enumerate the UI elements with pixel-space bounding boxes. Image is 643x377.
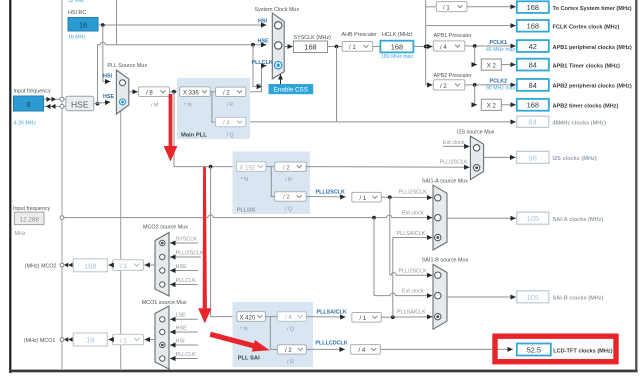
svg-text:X 336: X 336 [183,90,199,96]
MCO1 radio HSE [160,329,165,334]
AHB prescaler dropdown /1 [342,42,373,52]
node HSE junction [96,102,100,106]
MCO2 double arrow left [64,263,73,268]
svg-text:/ 1: / 1 [360,196,367,202]
svg-text:* N: * N [241,177,249,183]
wire FCLK [426,25,516,27]
svg-text:MHz: MHz [15,231,26,237]
PLL source mux body [116,70,128,114]
PLLI2S /Q dropdown [275,192,307,201]
frame right border [635,0,637,372]
pin node I2S CKIN [60,216,64,220]
double arrow left [46,104,56,109]
APB1 timer multiplier X2 [481,59,501,70]
MCO2 value box 168 greyed [73,259,107,272]
wire HCLK right [414,46,426,48]
wire X2 to APB2 timer [501,104,516,106]
MCO1 divider dropdown /1 greyed [113,334,144,345]
svg-text:180 MHz max: 180 MHz max [381,54,413,60]
left pin rail wire [61,0,63,369]
svg-text:Main PLL: Main PLL [181,132,207,138]
wire input to HSE pin upper [44,98,61,100]
wire N to P [210,91,215,93]
SAI1-B radio PLLSAICLK selected [435,313,441,319]
wire SAI N elbow to R [270,317,277,350]
node HCLK junction [424,45,428,49]
svg-text:APB1 peripheral clocks (MHz): APB1 peripheral clocks (MHz) [553,45,632,51]
svg-text:SAI1-A source Mux: SAI1-A source Mux [422,179,468,185]
svg-text:APB1 Prescaler: APB1 Prescaler [434,33,472,39]
svg-text:(MHz) MCO2: (MHz) MCO2 [25,264,57,270]
wire PLL mux out [129,91,138,93]
svg-text:168: 168 [527,101,539,110]
wire APB2 out [465,84,516,86]
svg-text:HSE: HSE [103,94,114,100]
svg-text:System Clock Mux: System Clock Mux [255,7,300,13]
svg-text:MCO1 source Mux: MCO1 source Mux [142,300,187,306]
svg-text:MCO2 source Mux: MCO2 source Mux [143,225,188,231]
wire I2S N to R [266,166,275,168]
LSE stub wire MCO1 [170,318,198,320]
MCO1 radio HSI selected [160,342,165,347]
svg-text:PCLK1: PCLK1 [490,40,508,46]
svg-text:/ 2: / 2 [283,165,290,171]
svg-text:/ 4: / 4 [285,315,292,321]
wire divider to SAI1-A mux [381,196,432,198]
svg-text:HSE: HSE [176,325,187,331]
svg-text:SAI-A clocks (MHz): SAI-A clocks (MHz) [553,217,604,223]
Main PLL /P dropdown [216,87,246,96]
svg-text:* N: * N [184,102,192,108]
APB1 peripheral value box 42 [517,40,549,52]
I2S value box 96 greyed [517,151,550,163]
svg-text:SYSCLK: SYSCLK [176,236,198,242]
MCO1 double arrow left [64,337,73,342]
FCLK value box 168 [517,20,549,32]
wire LCD divider to output [380,348,512,350]
SAI1-A source mux body [433,185,447,250]
svg-text:PLLCLK: PLLCLK [252,60,273,66]
svg-text:/ 4: / 4 [440,45,447,51]
wire SAI1-A out [447,217,516,219]
node PLLI2SCLK junction [388,195,392,199]
aux rail wire lower [120,111,122,369]
HSE oscillator block [66,96,94,110]
svg-text:84: 84 [529,61,537,70]
HCLK distribution rail [425,0,427,85]
SAI1-B radio PLLI2SCLK [435,272,441,278]
svg-text:PCLK2: PCLK2 [490,79,508,85]
svg-text:/ R: / R [287,359,294,365]
svg-text:APB2 Prescaler: APB2 Prescaler [434,73,472,79]
svg-text:SAI-B clocks (MHz): SAI-B clocks (MHz) [553,296,604,302]
svg-text:FCLK Cortex clock (MHz): FCLK Cortex clock (MHz) [553,25,620,31]
svg-text:/ 2: / 2 [283,195,290,201]
svg-text:/ 1: / 1 [349,45,356,51]
wire SAI N to Q [265,316,277,318]
MCO2 divider dropdown /1 greyed [113,260,144,271]
APB2 timer value box 168 [517,99,549,111]
svg-text:PLLI2SCLK: PLLI2SCLK [399,268,428,274]
MCO2 source mux body [155,233,169,297]
wire N elbow to Q [212,92,216,122]
wire APB2 down to X2 [475,85,477,105]
wire PLLSAI R out to LCD divider [306,348,345,350]
frame left border [9,0,11,373]
HSI RC oscillator block 16 MHz [68,18,98,32]
wire PLLI2SCLK into SAI1-B with hop [390,273,433,276]
PLLCLK stub wire MCO2 [170,284,198,286]
PLL mux radio HSE selected [120,99,126,105]
svg-text:/ 4: / 4 [223,121,230,127]
svg-text:PLLI2SCLK: PLLI2SCLK [399,190,428,196]
svg-text:APB1 Timer clocks (MHz): APB1 Timer clocks (MHz) [553,63,620,69]
svg-text:I2S clocks (MHz): I2S clocks (MHz) [553,156,597,162]
svg-text:PLLI2SCLK: PLLI2SCLK [440,160,469,166]
svg-text:HSI: HSI [103,74,112,80]
wire APB1 out [465,45,516,47]
Main PLL multiplier xN dropdown [180,87,211,97]
svg-text:105: 105 [527,214,539,223]
wire SYSCLK down [336,47,338,122]
APB1 prescaler dropdown /4 [433,41,465,51]
wire HSI to system clock mux [98,24,267,26]
wire rail into cortex prescaler [426,6,436,8]
wire SYSCLK to AHB [328,46,343,48]
svg-text:HCLK (MHz): HCLK (MHz) [382,32,413,38]
PLLI2SCLK stub wire MCO2 [170,256,201,258]
wire HSE down to CSS [252,45,254,87]
HSI stub wire MCO1 [170,344,198,346]
svg-text:/ Q: / Q [227,132,234,138]
red arrow 3 diagonal [210,332,270,352]
svg-text:HSI: HSI [176,338,185,344]
PLLI2S panel [233,152,311,215]
MCO1 value box 16 greyed [73,333,107,346]
I2S divider dropdown /1 [352,192,382,202]
APB2 peripheral value box 84 [517,79,549,91]
svg-text:4-26 MHz: 4-26 MHz [14,121,37,127]
svg-text:Ext clock: Ext clock [402,289,424,295]
wire PLLI2S Q out to divider [306,196,345,198]
wire APB1 down to X2 [475,46,477,65]
wire SAI1-B out [447,296,516,298]
LCD divider dropdown /4 [351,345,381,355]
pin node MCO2 [60,263,64,267]
SYSCLK value box 168 [294,41,328,53]
svg-text:PLLCLK: PLLCLK [176,352,196,358]
external I2S clock rail [64,215,432,218]
wire HSI into PLL mux [103,81,111,83]
node APB1 junction [473,44,477,48]
MCO2 radio SYSCLK selected [160,240,165,245]
svg-text:Input frequency: Input frequency [13,206,50,212]
svg-text:I2S source Mux: I2S source Mux [457,130,495,136]
I2S input frequency box 12.288 [14,212,44,225]
svg-text:X 420: X 420 [240,315,256,321]
pin node upper [60,97,64,101]
MCO1 radio LSE [160,317,165,322]
wire CSS stub with hop [253,84,262,87]
node APB2 junction [473,83,477,87]
wire HSE to system clock mux with hop [98,42,267,45]
svg-text:PLLSAICLK: PLLSAICLK [397,310,426,316]
svg-text:168: 168 [391,43,403,52]
APB1 timer value box 84 [517,59,549,71]
MCO2 radio PLLI2SCLK [160,254,165,259]
wire sysmux out [284,46,293,48]
HSE stub wire MCO2 [170,270,198,272]
divider /M dropdown [139,87,170,97]
node PLLSAICLK junction [391,315,395,319]
wire I2S mux out [484,156,516,158]
SAI1-A radio PLLSAICLK selected [435,234,441,240]
wire I2S N elbow to Q [271,167,274,197]
wire pins to HSE block [64,98,66,100]
svg-text:PLLCLK: PLLCLK [176,278,196,284]
svg-text:45 MHz max: 45 MHz max [486,47,516,53]
PLLSAI /Q dropdown greyed [277,312,306,321]
APB2 prescaler dropdown /2 [433,80,465,90]
wire MCO2 divider to box [108,264,112,266]
MCO1 source mux body [155,306,169,369]
sysmux radio PLLCLK selected [275,61,282,68]
PLLI2S /R dropdown [275,162,307,171]
double arrow right [47,97,57,102]
svg-text:APB2 peripheral clocks (MHz): APB2 peripheral clocks (MHz) [553,84,632,90]
svg-text:/ 1: / 1 [120,338,127,344]
svg-text:LCD-TFT clocks (MHz): LCD-TFT clocks (MHz) [553,348,612,354]
wire ext clock into SAI1-B with hop [374,293,432,296]
svg-text:168: 168 [527,3,539,12]
I2S mux radio Ext [473,145,479,151]
HCLK value box 168 [380,41,413,53]
HSE stub wire MCO1 [170,331,198,333]
svg-text:/ Q: / Q [285,207,292,213]
svg-text:/ M: / M [151,103,159,109]
MCO2 radio HSE [160,268,165,273]
wire HSI down to PLL mux [102,25,104,82]
wire HSE into PLL mux [94,102,111,104]
wire MCO1 mux out [144,339,155,341]
svg-text:HSE: HSE [258,39,269,45]
PLLSAI /R dropdown [277,345,306,354]
svg-text:16: 16 [86,336,94,345]
wire PLLI2S R out to I2S mux [306,166,469,169]
svg-text:PLLI2SCLK: PLLI2SCLK [316,189,345,195]
wire MCO2 mux out [144,264,155,266]
svg-text:/ 8: / 8 [146,91,153,97]
wire PLLCLK into sysmux [262,65,267,67]
svg-text:32 kHz: 32 kHz [68,0,85,4]
svg-text:84: 84 [529,118,537,127]
red highlight rectangle [495,336,616,362]
svg-text:Ext clock: Ext clock [402,211,424,217]
cortex timer value box 168 [517,1,549,13]
svg-text:PLLSAICLK: PLLSAICLK [397,231,426,237]
PLL SAI panel [233,302,314,367]
wire ext clock down to SAI1-B [373,218,375,296]
node HSE CSS junction [251,43,255,47]
MCO2 radio PLLCLK [160,282,165,287]
svg-text:HSI: HSI [258,19,267,25]
svg-text:PLLI2SCLK: PLLI2SCLK [176,250,205,256]
LCD-TFT value box 52.5 [517,344,551,356]
frame bottom border [9,370,638,373]
SAI1-B radio Ext [435,292,441,298]
wire 48MHz clocks [246,121,516,123]
svg-text:* N: * N [240,327,248,333]
svg-text:/ 1: / 1 [443,6,450,12]
svg-text:AHB Prescaler: AHB Prescaler [342,32,378,38]
wire rail into APB2 [426,84,433,86]
wire M down [174,92,237,167]
svg-text:HSI RC: HSI RC [68,10,86,16]
Ext clock stub wire I2S [443,145,470,147]
svg-text:X 192: X 192 [240,165,256,171]
wire PLLCLK vertical [246,66,262,92]
svg-text:168: 168 [84,261,96,270]
node M junction [172,90,176,94]
wire PLL feed down to PLLSAI [211,167,237,317]
svg-text:/ Q: / Q [287,327,294,333]
wire PLLSAI Q out to divider [306,316,345,318]
PLLI2S multiplier xN dropdown greyed [237,162,267,172]
wire CSS up to mux [280,74,282,84]
svg-text:(MHz) MCO1: (MHz) MCO1 [24,338,56,344]
MCO1 radio PLLCLK [160,356,165,361]
svg-text:PLL Source Mux: PLL Source Mux [107,63,147,69]
Main PLL panel [177,78,250,139]
svg-text:HSE: HSE [176,264,187,270]
svg-text:Enable CSS: Enable CSS [274,87,308,94]
svg-text:/ 2: / 2 [285,348,292,354]
svg-text:X 2: X 2 [487,104,497,110]
wire divider to SAI1-B mux [381,316,432,319]
svg-text:48MHz clocks (MHz): 48MHz clocks (MHz) [553,121,607,127]
wire /M out [170,91,180,93]
wire PLLSAICLK up to SAI1-A [392,238,394,318]
wire HSE up [97,45,99,104]
SAI-A value box 105 greyed [517,212,549,224]
node ext clock junction [372,216,376,220]
wire PLLSAICLK into SAI1-A [393,237,433,239]
sysmux radio HSE [275,42,282,49]
PLLCLK stub wire MCO1 [170,358,198,360]
svg-text:8: 8 [26,100,30,109]
svg-text:/ 2: / 2 [440,84,447,90]
svg-text:12.288: 12.288 [20,216,40,223]
pin node MCO1 [60,338,64,342]
svg-text:42: 42 [529,42,537,51]
svg-text:168: 168 [304,43,316,52]
svg-text:/ P: / P [227,102,234,108]
svg-text:168: 168 [527,22,539,31]
svg-text:96: 96 [529,153,537,162]
svg-text:/ 4: / 4 [359,348,366,354]
wire PLLI2SCLK down to SAI1-B [389,197,391,275]
red arrow 1 vertical [164,94,178,162]
svg-text:/ 1: / 1 [120,264,127,270]
I2S mux radio PLLI2SCLK selected [473,165,479,171]
svg-text:PLL SAI: PLL SAI [238,356,261,362]
sysmux radio HSI [275,22,282,29]
PLL mux radio HSI [120,80,126,86]
wire AHB to HCLK [373,46,381,48]
svg-text:To Cortex System timer (MHz): To Cortex System timer (MHz) [553,6,632,12]
wire X2 to APB1 timer [501,64,516,66]
wire MCO1 divider to box [108,339,112,341]
system clock mux body [272,13,284,79]
stub rail wire top [116,0,118,45]
red arrow 2 vertical long [198,167,211,323]
svg-text:Ext clock: Ext clock [443,140,465,146]
svg-text:16 MHz: 16 MHz [68,35,86,41]
HSE input frequency box 8 [14,96,44,111]
48MHz value box 84 greyed [517,116,549,127]
wire rail into APB1 [426,46,433,48]
svg-text:/ 2: / 2 [223,90,230,96]
wire pins to HSE block lower [64,105,66,107]
svg-text:SYSCLK (MHz): SYSCLK (MHz) [294,35,332,41]
SAI1-A radio PLLI2SCLK [435,195,441,201]
svg-text:105: 105 [527,293,539,302]
pin node lower [60,104,64,108]
svg-text:/ 1: / 1 [360,316,367,322]
svg-text:HSE: HSE [71,99,89,109]
cortex timer prescaler dropdown /1 [436,2,467,12]
svg-text:PLLI2S: PLLI2S [237,208,256,214]
I2S source mux body [470,136,483,180]
svg-text:APB2 timer clocks (MHz): APB2 timer clocks (MHz) [553,104,619,110]
node SYSCLK junction [335,45,339,49]
node HSI junction [101,23,105,27]
svg-text:LSE: LSE [176,313,187,319]
wire input to HSE pin lower [44,105,61,107]
SAI divider dropdown /1 [352,313,382,323]
SAI1-A radio Ext [435,215,441,221]
wire cortex timer [467,6,516,8]
svg-text:/ R: / R [285,177,292,183]
Enable CSS button [269,84,314,94]
node PLL feed junction [209,165,213,169]
svg-text:84: 84 [529,81,537,90]
svg-text:PLLSAICLK: PLLSAICLK [317,310,347,316]
svg-text:X 2: X 2 [487,63,497,69]
svg-text:16: 16 [79,21,87,30]
PLLSAI multiplier xN dropdown [237,312,266,322]
svg-text:Input frequency: Input frequency [14,89,51,95]
svg-text:SAI1-B source Mux: SAI1-B source Mux [422,257,469,263]
svg-text:52.5: 52.5 [527,345,541,354]
SAI1-B source mux body [433,264,447,329]
SAI-B value box 105 greyed [517,291,549,303]
svg-text:90 MHz max: 90 MHz max [486,86,516,92]
APB2 timer multiplier X2 [481,99,501,110]
svg-text:PLLLCDCLK: PLLLCDCLK [315,340,347,346]
Main PLL /Q dropdown greyed [216,117,246,126]
SYSCLK stub wire MCO2 [170,242,198,244]
